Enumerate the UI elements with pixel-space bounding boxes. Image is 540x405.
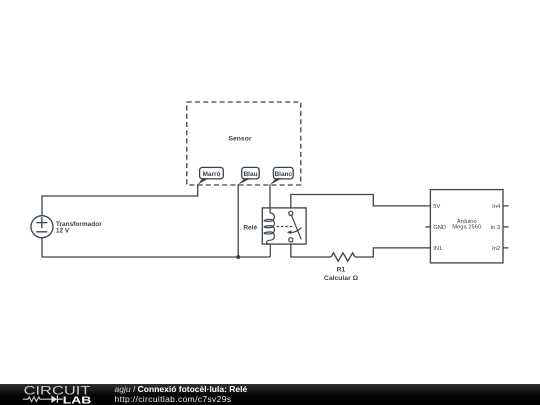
svg-text:Blau: Blau: [243, 171, 257, 178]
svg-text:IN1: IN1: [433, 246, 442, 252]
svg-text:Sensor: Sensor: [228, 135, 251, 142]
svg-text:5V: 5V: [433, 204, 440, 210]
svg-text:Blanc: Blanc: [274, 171, 292, 178]
svg-text:LAB: LAB: [63, 394, 92, 405]
svg-text:In 3: In 3: [491, 225, 501, 231]
svg-text:In4: In4: [492, 204, 501, 210]
svg-text:Calcular Ω: Calcular Ω: [324, 275, 359, 282]
svg-text:Marró: Marró: [202, 171, 220, 178]
svg-text:GND: GND: [433, 225, 446, 231]
svg-text:In2: In2: [492, 246, 500, 252]
svg-text:Mega 2560: Mega 2560: [452, 225, 481, 231]
svg-text:R1: R1: [337, 267, 346, 274]
svg-text:Relé: Relé: [243, 225, 257, 232]
svg-text:12 V: 12 V: [56, 228, 70, 235]
